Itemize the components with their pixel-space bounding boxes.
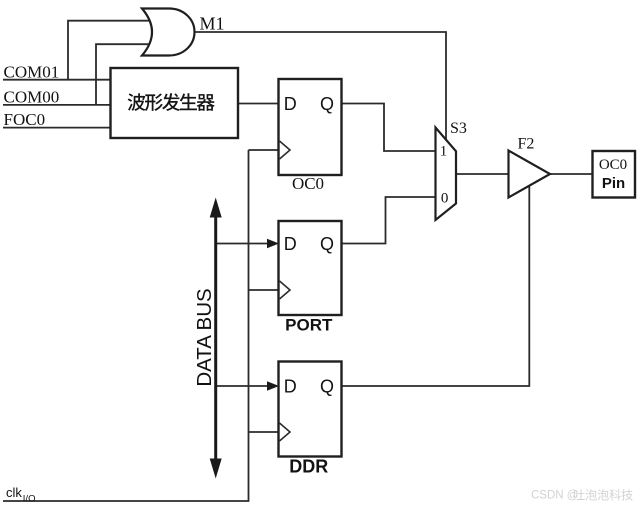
svg-text:Q: Q	[320, 94, 334, 114]
wire data bus branch to DDR D	[216, 385, 268, 387]
svg-text:OC0: OC0	[599, 157, 627, 173]
OC0 clock triangle	[280, 141, 291, 159]
data bus bottom arrowhead	[210, 459, 222, 479]
OC0 pin box	[593, 151, 636, 198]
data bus shaft	[214, 214, 217, 463]
PORT clock triangle	[280, 281, 291, 299]
svg-text:1: 1	[440, 144, 448, 160]
DDR clock triangle	[280, 423, 291, 441]
svg-text:D: D	[284, 376, 297, 396]
wire clock stub to DDR clock	[249, 431, 280, 433]
svg-text:COM00: COM00	[4, 88, 60, 107]
svg-text:clk: clk	[6, 485, 22, 500]
arrowhead into PORT D	[267, 239, 279, 249]
wire clock stub to OC0 clock	[249, 149, 280, 151]
svg-text:PORT: PORT	[285, 316, 333, 335]
arrowhead into DDR D	[267, 381, 279, 391]
wire DDR Q to buffer F2 enable	[341, 187, 529, 387]
svg-text:D: D	[284, 94, 297, 114]
svg-text:Pin: Pin	[602, 175, 625, 192]
data bus top arrowhead	[210, 198, 222, 218]
svg-text:M1: M1	[200, 14, 225, 34]
wire COM00 input line	[3, 104, 111, 106]
svg-text:S3: S3	[450, 120, 467, 137]
flip-flop OC0 box	[279, 79, 342, 175]
svg-text:0: 0	[441, 191, 449, 207]
svg-text:DDR: DDR	[289, 457, 328, 477]
wire FOC0 input line	[3, 127, 111, 129]
svg-text:OC0: OC0	[292, 174, 324, 193]
svg-text:COM01: COM01	[4, 63, 60, 82]
svg-text:Q: Q	[320, 234, 334, 254]
flip-flop PORT box	[279, 221, 342, 315]
svg-text:D: D	[284, 234, 297, 254]
wire clock stub to PORT clock	[249, 289, 280, 291]
svg-text:DATA BUS: DATA BUS	[193, 288, 216, 386]
waveform generator box	[111, 68, 239, 138]
wire COM01 to OR gate top input	[68, 21, 155, 80]
waveform generator label 波形发生器	[128, 93, 215, 111]
wire waveform generator output to OC0 D	[237, 103, 279, 105]
svg-text:F2: F2	[518, 136, 535, 153]
wire data bus branch to PORT D	[216, 243, 268, 245]
flip-flop DDR box	[279, 362, 342, 457]
svg-text:FOC0: FOC0	[4, 110, 46, 129]
multiplexer S3	[436, 128, 457, 221]
svg-text:Q: Q	[320, 376, 334, 396]
svg-text:CSDN @: CSDN @	[531, 490, 578, 502]
or-gate M1	[142, 9, 195, 56]
wire buffer F2 output to OC0 pin	[549, 173, 593, 175]
wire clk I/O net	[3, 150, 249, 501]
wire M1 net: OR output to mux select	[194, 32, 447, 140]
wire PORT Q to mux input 0	[341, 197, 436, 244]
watermark CJK	[574, 489, 633, 500]
tri-state buffer F2	[509, 151, 551, 198]
wire COM00 to OR gate bottom input	[96, 44, 155, 105]
svg-text:I/O: I/O	[23, 494, 36, 505]
wire mux output to buffer F2	[455, 173, 509, 175]
wire COM01 input line	[3, 79, 111, 81]
wire OC0 Q to mux input 1	[341, 104, 436, 152]
